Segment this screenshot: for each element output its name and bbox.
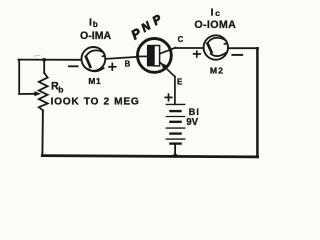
battery B1 (166, 104, 184, 156)
wire top-left horizontal (18, 59, 81, 61)
svg-text:C: C (178, 35, 184, 44)
label Ib (89, 16, 98, 29)
svg-text:c: c (215, 8, 220, 18)
svg-text:IOOK TO 2 MEG: IOOK TO 2 MEG (51, 96, 140, 107)
plus sign of M2 (194, 51, 201, 57)
plus sign of battery (165, 94, 172, 101)
wire right vertical (256, 48, 259, 157)
svg-text:BI: BI (189, 107, 200, 117)
svg-text:9V: 9V (186, 117, 198, 128)
svg-text:b: b (93, 20, 98, 29)
svg-text:B: B (125, 60, 131, 69)
wire emitter vertical (174, 76, 176, 104)
wire collector to M2 (175, 47, 203, 49)
wire M2 right to corner (229, 47, 258, 49)
wire bottom (42, 156, 257, 157)
svg-text:O-IMA: O-IMA (80, 30, 112, 42)
svg-text:O-IOMA: O-IOMA (194, 19, 236, 31)
node junction battery to bottom wire (173, 154, 177, 158)
wire M1 to base (106, 57, 138, 59)
meter M1 (82, 47, 106, 71)
resistor Rb (39, 60, 48, 155)
svg-text:I: I (89, 16, 92, 28)
svg-text:M1: M1 (88, 76, 101, 86)
transistor Q1 (138, 39, 176, 77)
node junction top of Rb (42, 58, 46, 62)
plus sign of M1 (109, 63, 116, 70)
scan smudge above top wire (34, 55, 41, 56)
wiper arrow of Rb (19, 91, 41, 96)
label PNP (128, 11, 164, 42)
svg-text:b: b (58, 84, 63, 94)
svg-text:E: E (177, 77, 183, 86)
label Ic (211, 6, 221, 18)
svg-text:M2: M2 (210, 66, 224, 76)
svg-text:I: I (211, 6, 214, 18)
label Rb (51, 81, 63, 95)
minus sign of M1 (69, 65, 78, 67)
wire left vertical (18, 60, 20, 94)
minus sign of M2 (232, 54, 242, 56)
meter M2 (204, 35, 228, 59)
